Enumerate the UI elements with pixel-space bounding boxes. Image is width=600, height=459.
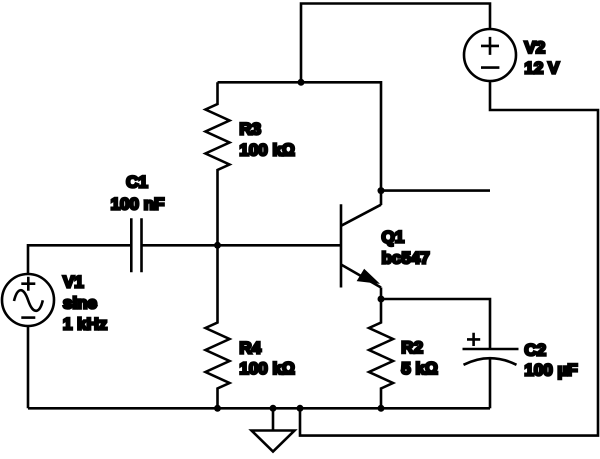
wire C1 to base node bbox=[142, 244, 218, 247]
svg-text:1 kHz: 1 kHz bbox=[63, 314, 107, 333]
svg-text:sine: sine bbox=[63, 293, 97, 312]
wire base node to Q1 base bbox=[218, 244, 342, 247]
wire collector rail R3-top to collector bbox=[218, 82, 382, 205]
wire Q1 emitter to node bbox=[380, 288, 383, 300]
svg-text:100 kΩ: 100 kΩ bbox=[239, 140, 295, 159]
wire emitter node to C2 top bbox=[381, 299, 490, 349]
wire bottom rail bbox=[28, 407, 490, 410]
Q1 collector diagonal bbox=[341, 205, 381, 226]
V2 plus sign bbox=[481, 37, 499, 55]
source V1 sine bbox=[2, 274, 54, 326]
svg-text:R2: R2 bbox=[401, 338, 423, 357]
capacitor C2 bottom curved plate bbox=[464, 358, 517, 365]
V1 minus sign bbox=[21, 316, 35, 319]
node supply junction A bbox=[298, 79, 305, 86]
V2 minus sign bbox=[481, 66, 499, 69]
svg-text:C2: C2 bbox=[524, 341, 546, 360]
source V2 bbox=[464, 29, 516, 81]
node base junction bbox=[214, 242, 221, 249]
node ground junction bbox=[270, 405, 277, 412]
resistor R2 bbox=[369, 299, 393, 408]
svg-text:100 µF: 100 µF bbox=[524, 361, 577, 380]
node R2 bottom bbox=[378, 405, 385, 412]
wire V1 minus to bottom rail bbox=[27, 326, 30, 408]
node collector bbox=[378, 187, 385, 194]
svg-text:5 kΩ: 5 kΩ bbox=[401, 359, 438, 378]
wire V2 minus return to ground rail bbox=[300, 81, 598, 436]
wire V1 plus to C1 bbox=[28, 245, 131, 274]
svg-text:100 kΩ: 100 kΩ bbox=[239, 359, 295, 378]
svg-text:V1: V1 bbox=[63, 272, 84, 291]
svg-text:Q1: Q1 bbox=[382, 228, 405, 247]
ground bbox=[252, 431, 295, 452]
node return junction bbox=[297, 405, 304, 412]
wire output stub from collector node bbox=[381, 189, 490, 192]
node R4 bottom bbox=[214, 405, 221, 412]
svg-text:R4: R4 bbox=[239, 338, 261, 357]
svg-text:bc547: bc547 bbox=[382, 249, 430, 268]
svg-text:100 nF: 100 nF bbox=[111, 195, 165, 214]
transistor Q1 base bar bbox=[340, 204, 343, 287]
ground stem bbox=[272, 408, 275, 430]
capacitor C1 bbox=[131, 218, 141, 272]
V1 plus sign bbox=[21, 277, 35, 291]
Q1 emitter diagonal bbox=[341, 265, 381, 288]
V1 sine wave bbox=[14, 290, 43, 311]
svg-text:C1: C1 bbox=[126, 173, 148, 192]
svg-text:12 V: 12 V bbox=[524, 59, 560, 78]
node emitter bbox=[378, 296, 385, 303]
resistor R3 bbox=[206, 82, 230, 245]
svg-text:R3: R3 bbox=[239, 120, 261, 139]
resistor R4 bbox=[206, 245, 230, 408]
svg-text:V2: V2 bbox=[524, 38, 545, 57]
wire top rail from supply node to V2 plus bbox=[301, 4, 490, 84]
Q1 emitter arrow bbox=[358, 270, 378, 283]
wire C2 bottom lead bbox=[489, 358, 492, 408]
C2 plus sign bbox=[467, 333, 480, 346]
capacitor C2 top plate bbox=[463, 348, 519, 351]
